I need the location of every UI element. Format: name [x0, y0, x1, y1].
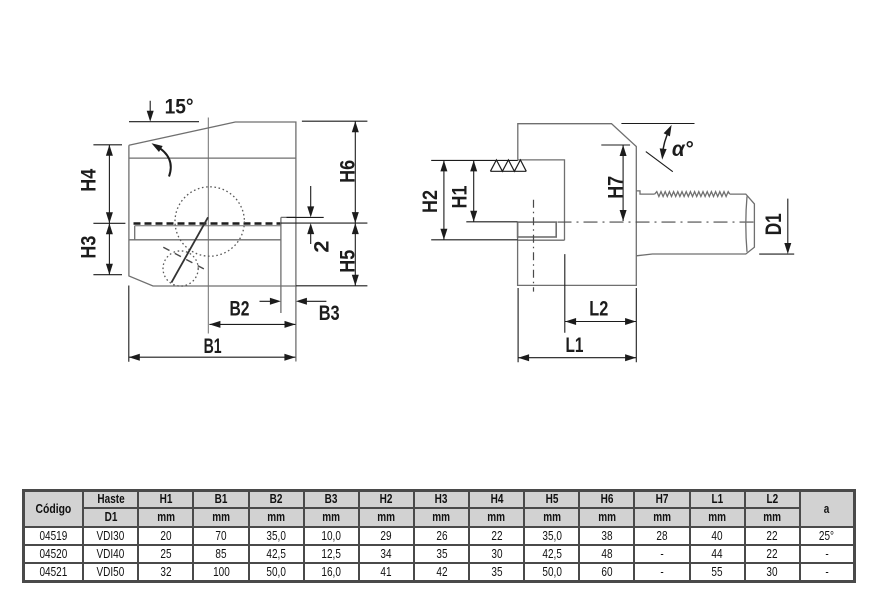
- dimension L2: [565, 254, 636, 333]
- svg-text:H3: H3: [78, 236, 101, 259]
- svg-text:H7: H7: [605, 176, 628, 199]
- svg-text:H1: H1: [448, 185, 471, 208]
- left view big dotted circle: [175, 187, 244, 256]
- dimension H4: [93, 145, 125, 275]
- svg-text:L1: L1: [566, 334, 584, 357]
- dimension alpha angle: [621, 124, 694, 172]
- dimension H1: [466, 160, 517, 221]
- svg-text:B2: B2: [230, 298, 250, 321]
- right view thread triangles symbol: [490, 160, 526, 171]
- right view tool pocket rectangle: [518, 222, 557, 237]
- dimension H2: [431, 160, 518, 239]
- data table: [22, 489, 856, 583]
- left view dash-dot slant line: [163, 247, 205, 270]
- svg-text:H6: H6: [336, 160, 359, 183]
- dimension 2 (tab thickness): [287, 186, 324, 244]
- dimension L1: [518, 288, 636, 362]
- dimension H5: [352, 223, 359, 234]
- dimension H6: [281, 121, 368, 286]
- svg-text:H2: H2: [419, 190, 442, 213]
- svg-text:L2: L2: [589, 297, 608, 320]
- left view tab (2mm plate): [281, 217, 296, 361]
- dimension D1: [759, 199, 794, 255]
- dimension B3 arrows: [260, 300, 327, 302]
- dimension H7: [601, 145, 630, 221]
- left view clamp lever solid line: [171, 217, 208, 282]
- svg-text:B3: B3: [319, 302, 340, 325]
- left view tool seat slot: [129, 226, 281, 240]
- svg-text:2: 2: [311, 241, 334, 253]
- left view vertical centerline: [207, 118, 209, 334]
- left view hidden edge dashed line: [134, 222, 281, 225]
- svg-text:D1: D1: [761, 213, 786, 235]
- svg-text:B1: B1: [204, 335, 222, 358]
- svg-text:H5: H5: [336, 249, 359, 272]
- dimension B1: [129, 286, 296, 362]
- svg-text:α°: α°: [672, 138, 694, 161]
- left view body outline: [129, 122, 296, 286]
- left view small dotted circle: [163, 251, 198, 286]
- dimension 15 degrees: [129, 101, 199, 122]
- right view shank with thread: [636, 191, 754, 256]
- dimension B2: [209, 323, 295, 325]
- right view horizontal centerline: [558, 221, 758, 223]
- right view vertical dash-dot centerline: [533, 200, 535, 292]
- svg-text:15°: 15°: [165, 96, 194, 119]
- dimension H3: [106, 223, 113, 234]
- svg-text:H4: H4: [78, 168, 101, 191]
- right view body outline: [518, 124, 637, 286]
